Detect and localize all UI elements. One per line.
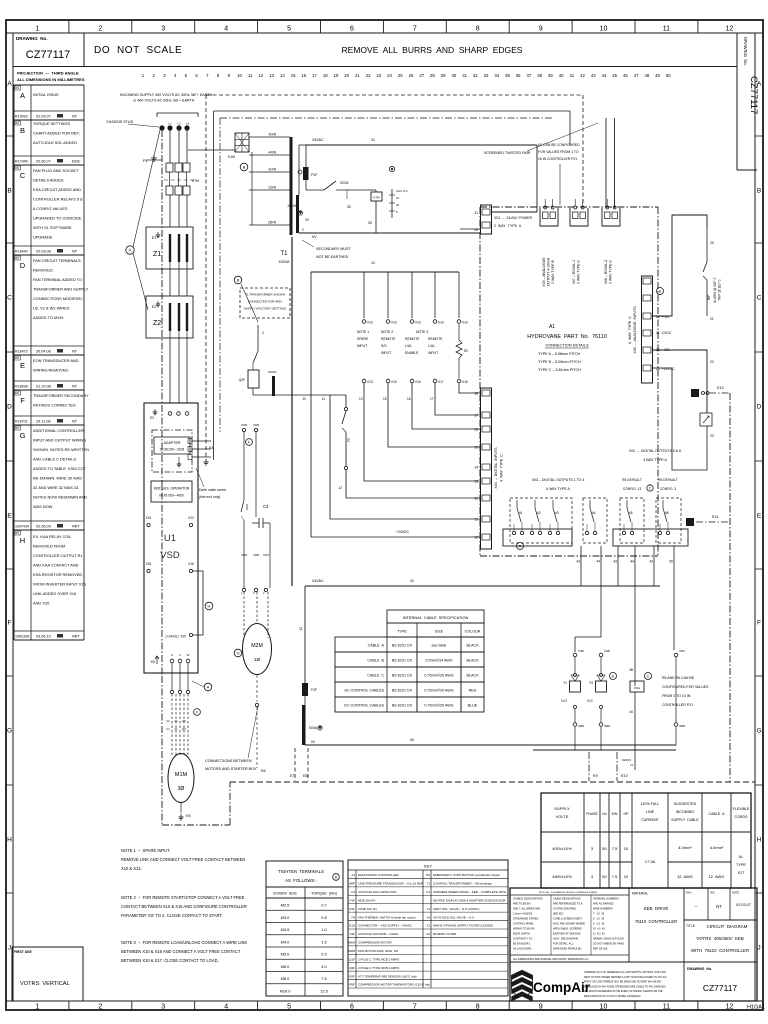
svg-text:EARTHED AT ONE END: EARTHED AT ONE END <box>553 932 581 935</box>
svg-text:60204. EARTH: 60204. EARTH <box>513 932 530 935</box>
svg-text:H1GA1: H1GA1 <box>747 1005 765 1011</box>
svg-text:D: D <box>612 674 615 678</box>
svg-text:NOTE 2: NOTE 2 <box>381 330 393 334</box>
svg-text:8: 8 <box>476 25 480 32</box>
svg-text:R1F: R1F <box>349 907 355 911</box>
svg-text:KSA: KSA <box>245 504 249 510</box>
svg-text:U: U <box>171 653 173 657</box>
svg-text:CompAir: CompAir <box>533 980 591 995</box>
svg-text:SYMBOL DESIGNATIONS: SYMBOL DESIGNATIONS <box>513 897 543 900</box>
svg-text:BS 6231 CK: BS 6231 CK <box>392 689 413 693</box>
svg-text:F2F: F2F <box>311 688 317 692</box>
svg-text:29.11.08: 29.11.08 <box>36 420 51 424</box>
svg-text:37: 37 <box>527 73 532 78</box>
svg-text:2 WAY TYPE B: 2 WAY TYPE B <box>551 259 555 283</box>
svg-text:00.F5.060—4000: 00.F5.060—4000 <box>159 494 184 498</box>
svg-text:F1F: F1F <box>350 898 356 902</box>
svg-text:TORQUE SETTINGS: TORQUE SETTINGS <box>33 121 71 126</box>
svg-text:CONFIG. 3: CONFIG. 3 <box>660 487 677 491</box>
svg-text:X10: X10 <box>415 321 421 325</box>
svg-text:M/S: M/S <box>15 533 20 535</box>
svg-text:X04 – DIGITAL INPUTS: X04 – DIGITAL INPUTS <box>494 447 498 489</box>
svg-text:CONNECTIONS BETWEEN: CONNECTIONS BETWEEN <box>205 759 252 763</box>
svg-text:2 WAY TYPE A: 2 WAY TYPE A <box>494 224 522 228</box>
svg-text:Y4: Y4 <box>589 681 593 685</box>
svg-text:COMPRESSOR MOTOR: COMPRESSOR MOTOR <box>358 941 392 945</box>
svg-text:A: A <box>128 248 131 253</box>
svg-text:WIRING TO BS EN: WIRING TO BS EN <box>513 927 535 930</box>
svg-text:U1: U1 <box>164 533 176 544</box>
svg-text:11: 11 <box>322 397 326 401</box>
svg-text:E4: E4 <box>209 446 213 450</box>
svg-text:03.06.10: 03.06.10 <box>36 635 51 639</box>
svg-text:MATERIAL: MATERIAL <box>632 892 648 896</box>
svg-text:21 CVDC: 21 CVDC <box>656 331 672 335</box>
svg-text:E2: E2 <box>152 305 156 309</box>
svg-text:E6: E6 <box>151 660 155 664</box>
svg-text:X16: X16 <box>415 380 421 384</box>
svg-text:REMOTE: REMOTE <box>381 337 396 341</box>
svg-text:A0 CAN BE CONFIGURED: A0 CAN BE CONFIGURED <box>538 143 580 147</box>
svg-text:0V: 0V <box>305 218 310 222</box>
svg-text:16: 16 <box>301 73 306 78</box>
svg-text:3MD: 3MD <box>578 724 585 728</box>
svg-text:E: E <box>757 512 762 519</box>
svg-text:CONNECTIONS MODIFIED.: CONNECTIONS MODIFIED. <box>33 296 83 301</box>
svg-text:L2: L2 <box>177 122 181 126</box>
svg-text:25: 25 <box>398 73 403 78</box>
svg-text:7.5: 7.5 <box>612 846 618 851</box>
svg-text:7 1.0 25: 7 1.0 25 <box>593 912 605 915</box>
svg-text:30.04.08: 30.04.08 <box>36 350 51 354</box>
svg-text:8: 8 <box>476 1004 480 1011</box>
svg-text:COOLING FAN CAPACITOR: COOLING FAN CAPACITOR <box>358 890 397 894</box>
svg-text:REMOVED.: REMOVED. <box>33 268 54 273</box>
svg-text:H: H <box>20 536 25 545</box>
svg-text:12: 12 <box>259 73 264 78</box>
svg-text:VSD: VSD <box>160 550 180 561</box>
svg-text:4.0mm²: 4.0mm² <box>678 845 692 850</box>
svg-text:2.5: 2.5 <box>321 952 326 957</box>
svg-text:17: 17 <box>312 73 317 78</box>
svg-text:TRANSFORMER AND SUPPLY: TRANSFORMER AND SUPPLY <box>33 287 89 292</box>
svg-text:02.06.09: 02.06.09 <box>36 525 51 529</box>
svg-text:L/UL: L/UL <box>428 344 435 348</box>
svg-text:AUTO-IDLE SOL ADDED: AUTO-IDLE SOL ADDED <box>33 140 77 145</box>
svg-text:FAN CIRCUIT TERMINALS: FAN CIRCUIT TERMINALS <box>33 258 81 263</box>
svg-text:CONTROLLER P21: CONTROLLER P21 <box>662 703 693 707</box>
svg-text:M/S: M/S <box>15 393 20 395</box>
svg-text:FUSE 10A (F): FUSE 10A (F) <box>358 907 377 911</box>
svg-text:NT: NT <box>72 115 78 119</box>
svg-text:or 460 VOLTS AC 60Hz 3Ø + EART: or 460 VOLTS AC 60Hz 3Ø + EARTH <box>133 99 195 103</box>
svg-text:ONLY. SEE DIAGRAM: ONLY. SEE DIAGRAM <box>553 937 578 940</box>
svg-text:U2, V2 & W2 WIRES: U2, V2 & W2 WIRES <box>33 306 70 311</box>
svg-text:R2F: R2F <box>349 974 355 978</box>
svg-text:TYPE: TYPE <box>397 630 407 634</box>
svg-text:43: 43 <box>649 560 653 564</box>
svg-text:XW7: XW7 <box>263 553 270 557</box>
svg-text:RIF: RIF <box>707 295 711 300</box>
svg-text:NOS. ARE SHOWN WHERE: NOS. ARE SHOWN WHERE <box>553 922 585 925</box>
svg-text:KEY: KEY <box>424 864 432 869</box>
svg-text:2: 2 <box>98 1004 102 1011</box>
svg-text:F: F <box>20 396 25 405</box>
svg-text:9 WAY TYPE C: 9 WAY TYPE C <box>500 454 504 482</box>
svg-text:20.03.08: 20.03.08 <box>36 250 51 254</box>
svg-text:FOR DETAIL. ALL: FOR DETAIL. ALL <box>553 942 574 945</box>
svg-text:ARE REFERENCED TO A: ARE REFERENCED TO A <box>553 902 583 905</box>
svg-text:E: E <box>7 512 12 519</box>
svg-text:2 POLE C TYPE MCB 2 AMPS: 2 POLE C TYPE MCB 2 AMPS <box>358 957 399 961</box>
svg-text:CHART ADDED FOR REF;: CHART ADDED FOR REF; <box>33 131 80 136</box>
svg-text:X4B: X4B <box>578 649 584 653</box>
svg-text:CONTACT BETWEEN X10 & X15 AND: CONTACT BETWEEN X10 & X15 AND CONFIGURE … <box>121 904 247 909</box>
svg-text:#4: #4 <box>592 511 596 515</box>
svg-text:AUX A.C: AUX A.C <box>396 189 409 193</box>
svg-text:TYPE C – 3.81mm PITCH: TYPE C – 3.81mm PITCH <box>538 368 581 372</box>
svg-text:INPUT AND OUTPUT WIRING: INPUT AND OUTPUT WIRING <box>33 438 86 443</box>
svg-text:39: 39 <box>548 73 553 78</box>
svg-text:CABLE DESIGNATIONS: CABLE DESIGNATIONS <box>553 897 581 900</box>
svg-text:15: 15 <box>383 397 387 401</box>
svg-text:DO NOT SCALE: DO NOT SCALE <box>94 45 182 56</box>
svg-text:18: 18 <box>323 73 328 78</box>
svg-text:7: 7 <box>413 25 417 32</box>
svg-text:36: 36 <box>516 73 521 78</box>
svg-text:33: 33 <box>484 73 489 78</box>
svg-text:DRAWING No.: DRAWING No. <box>16 36 48 41</box>
svg-text:KSA RESISTOR REMOVED: KSA RESISTOR REMOVED <box>33 572 82 577</box>
svg-text:ARE AS MARKED.: ARE AS MARKED. <box>593 902 614 905</box>
svg-text:M5.0: M5.0 <box>281 952 290 957</box>
svg-text:CONTROLLER RELAYS 5 &: CONTROLLER RELAYS 5 & <box>33 197 83 202</box>
svg-text:NT: NT <box>72 385 78 389</box>
svg-text:4B: 4B <box>629 668 633 672</box>
svg-text:ALL RIGHTS RESERVED IN THE EVE: ALL RIGHTS RESERVED IN THE EVENT OF PATE… <box>584 990 663 993</box>
svg-text:BETWEEN X10 & X16 AND CONNECT: BETWEEN X10 & X16 AND CONNECT A VOLT FRE… <box>121 949 241 954</box>
svg-text:E3: E3 <box>150 416 154 420</box>
svg-text:C: C <box>7 294 12 301</box>
svg-text:K1M: K1M <box>228 155 235 159</box>
svg-text:CONTINUITY TO: CONTINUITY TO <box>513 937 532 940</box>
svg-text:MODBUS OPERATOR: MODBUS OPERATOR <box>154 487 190 491</box>
svg-text:TYPE: TYPE <box>736 863 746 867</box>
svg-text:CIRCUIT DIAGRAM: CIRCUIT DIAGRAM <box>707 924 748 929</box>
svg-text:Y1: Y1 <box>426 907 430 911</box>
svg-text:P1F: P1F <box>311 173 318 177</box>
svg-text:FROM 1 TO 13 IN: FROM 1 TO 13 IN <box>662 694 691 698</box>
svg-text:SECONDARY MUST: SECONDARY MUST <box>316 247 351 251</box>
svg-text:ADAPTER: ADAPTER <box>164 441 181 445</box>
svg-text:11: 11 <box>663 1004 670 1011</box>
svg-text:K7M: K7M <box>192 179 199 183</box>
svg-text:L/UL: L/UL <box>405 344 412 348</box>
svg-text:X13: X13 <box>367 380 373 384</box>
svg-text:M1M: M1M <box>175 772 188 778</box>
svg-text:40: 40 <box>410 738 414 742</box>
svg-text:13: 13 <box>359 397 363 401</box>
svg-text:31: 31 <box>462 73 467 78</box>
svg-text:Z1: Z1 <box>426 924 430 928</box>
svg-text:FROM INVERTER INPUT X16.: FROM INVERTER INPUT X16. <box>33 582 87 587</box>
svg-text:M3.0: M3.0 <box>281 915 290 920</box>
svg-text:VOTRS VERTICAL: VOTRS VERTICAL <box>20 981 70 987</box>
svg-text:34: 34 <box>494 73 499 78</box>
svg-text:CORDS: CORDS <box>735 815 749 819</box>
svg-text:R5 DEFAULT: R5 DEFAULT <box>622 478 642 482</box>
svg-text:SCREW SIZE: SCREW SIZE <box>273 892 298 896</box>
svg-text:#6: #6 <box>665 511 669 515</box>
svg-text:CABLE B: CABLE B <box>367 659 384 663</box>
svg-text:E9: E9 <box>593 774 598 778</box>
svg-text:X05 – ANALOGUE: X05 – ANALOGUE <box>542 257 546 287</box>
svg-text:X10 & X13.: X10 & X13. <box>121 866 142 871</box>
svg-text:SYSTEM DIAGRAM.: SYSTEM DIAGRAM. <box>553 907 577 910</box>
svg-text:UPGRADE.: UPGRADE. <box>33 235 53 240</box>
svg-text:2.5mm²/14 AWG: 2.5mm²/14 AWG <box>425 659 452 663</box>
svg-text:K7M: K7M <box>373 196 380 200</box>
svg-text:(+24Vdc) X20: (+24Vdc) X20 <box>166 635 187 639</box>
svg-text:10: 10 <box>474 536 478 540</box>
svg-text:WIRING REMOVED.: WIRING REMOVED. <box>33 368 69 373</box>
svg-text:M/S: M/S <box>15 168 20 170</box>
svg-text:W2: W2 <box>182 719 186 723</box>
svg-text:R18701: R18701 <box>15 420 28 424</box>
svg-text:11: 11 <box>630 763 633 767</box>
svg-text:Z1: Z1 <box>153 251 161 258</box>
svg-text:RE-DRAWN. WIRE 30 WAS: RE-DRAWN. WIRE 30 WAS <box>33 476 82 481</box>
svg-text:42: 42 <box>580 73 585 78</box>
svg-text:0.75mm²/20 AWG: 0.75mm²/20 AWG <box>424 674 453 678</box>
svg-text:MAINS: MAINS <box>622 758 631 762</box>
svg-text:24VAC: 24VAC <box>312 138 324 142</box>
svg-text:ALL DIMENSIONS IN MILLIMETRES: ALL DIMENSIONS IN MILLIMETRES <box>17 77 85 82</box>
svg-text:24VAC: 24VAC <box>312 579 324 583</box>
svg-text:38: 38 <box>537 73 542 78</box>
svg-text:DRAWING No.: DRAWING No. <box>743 37 748 66</box>
svg-text:R: R <box>335 875 338 879</box>
svg-text:12.5: 12.5 <box>320 988 328 993</box>
svg-text:BS 6231 CK: BS 6231 CK <box>392 644 413 648</box>
svg-text:AS LAID DOWN.: AS LAID DOWN. <box>513 947 532 950</box>
svg-text:XW5: XW5 <box>241 423 248 427</box>
svg-text:R6 DEFAULT: R6 DEFAULT <box>658 478 678 482</box>
svg-text:10: 10 <box>371 261 375 265</box>
svg-text:A1: A1 <box>549 324 555 330</box>
svg-text:NOTE 1 – SPARE INPUT.: NOTE 1 – SPARE INPUT. <box>121 848 170 853</box>
svg-text:F5: F5 <box>351 915 355 919</box>
svg-text:Z2: Z2 <box>426 932 430 936</box>
svg-text:N.O: N.O <box>561 699 567 703</box>
svg-text:12 AWG: 12 AWG <box>709 874 725 879</box>
svg-text:CHASSIS STUD: CHASSIS STUD <box>106 120 134 124</box>
svg-text:T1: T1 <box>280 251 288 257</box>
svg-text:10: 10 <box>600 25 608 32</box>
svg-text:M/S: M/S <box>15 428 20 430</box>
svg-text:LINK ADDED OVER X16: LINK ADDED OVER X16 <box>33 591 76 596</box>
svg-text:1.5: 1.5 <box>321 939 326 944</box>
svg-text:43: 43 <box>613 560 617 564</box>
svg-text:DC CONTROL CABLES: DC CONTROL CABLES <box>344 704 384 708</box>
svg-text:C3: C3 <box>351 890 355 894</box>
svg-text:PHASE: PHASE <box>586 812 598 816</box>
svg-text:7.5: 7.5 <box>612 874 618 879</box>
svg-text:1062308: 1062308 <box>15 635 29 639</box>
svg-text:X10: X10 <box>391 321 397 325</box>
svg-text:L3: L3 <box>186 122 190 126</box>
svg-text:F: F <box>8 619 12 626</box>
svg-text:A: A <box>7 80 12 87</box>
svg-text:44: 44 <box>602 73 607 78</box>
svg-text:AND KAA CONTACT AND: AND KAA CONTACT AND <box>33 563 79 568</box>
svg-text:10: 10 <box>624 874 629 879</box>
svg-text:40: 40 <box>396 203 400 207</box>
svg-text:BLACK: BLACK <box>466 644 479 648</box>
svg-text:KEYPAD DISPLAY-2008 & ADAPTER: KEYPAD DISPLAY-2008 & ADAPTER 00.58.025-… <box>433 898 505 902</box>
svg-text:WITH 76110 CONTROLLER: WITH 76110 CONTROLLER <box>691 948 749 953</box>
svg-text:0.7: 0.7 <box>321 903 326 908</box>
svg-text:BLACK: BLACK <box>466 659 479 663</box>
svg-text:NT: NT <box>72 350 78 354</box>
svg-text:AND CABLE C DETAILS: AND CABLE C DETAILS <box>33 457 76 462</box>
svg-text:XW9: XW9 <box>253 423 260 427</box>
svg-text:SJT: SJT <box>738 871 745 875</box>
svg-text:R18638: R18638 <box>15 385 28 389</box>
svg-text:Y1: Y1 <box>563 681 567 685</box>
svg-text:1Ø: 1Ø <box>254 657 261 662</box>
svg-text:INPUT: INPUT <box>357 344 367 348</box>
svg-text:X24: X24 <box>146 516 152 520</box>
svg-text:E1: E1 <box>152 236 156 240</box>
svg-text:CONNECTOR – VSD SUPPLY – 24VAC: CONNECTOR – VSD SUPPLY – 24VAC <box>358 924 413 928</box>
svg-text:M6.0: M6.0 <box>281 964 290 969</box>
svg-text:KSA: KSA <box>634 686 640 690</box>
svg-text:G: G <box>20 431 26 440</box>
svg-text:ALL DIMENSIONS ARE NOMINAL AND: ALL DIMENSIONS ARE NOMINAL AND FINISH: D… <box>513 958 588 961</box>
svg-text:X10: X10 <box>367 321 373 325</box>
svg-text:K: K <box>659 289 662 293</box>
svg-text:U1: U1 <box>426 890 430 894</box>
svg-text:REMOVED FROM: REMOVED FROM <box>33 544 65 549</box>
svg-text:50: 50 <box>602 846 607 851</box>
svg-text:ADDITIONAL CONTROLLER: ADDITIONAL CONTROLLER <box>33 428 84 433</box>
svg-text:5: 5 <box>287 25 291 32</box>
svg-text:21: 21 <box>355 73 360 78</box>
svg-text:REMOTE: REMOTE <box>405 337 420 341</box>
svg-text:PARAMETER 'SS' TO 2. CLOSE CON: PARAMETER 'SS' TO 2. CLOSE CONTACT TO ST… <box>121 913 223 918</box>
svg-text:20: 20 <box>710 241 714 245</box>
svg-text:CABLE A: CABLE A <box>368 644 385 648</box>
svg-text:EMERGENCY STOP BUTTON (pushbut: EMERGENCY STOP BUTTON (pushbutton head) <box>433 873 499 877</box>
svg-text:EX. KAA RELAY COIL: EX. KAA RELAY COIL <box>33 534 72 539</box>
svg-text:X5G: X5G <box>679 649 686 653</box>
svg-text:XW8: XW8 <box>253 553 260 557</box>
svg-text:#2: #2 <box>537 511 541 515</box>
svg-text:1: 1 <box>35 25 39 32</box>
svg-text:SCREENED TWISTED PAIR: SCREENED TWISTED PAIR <box>484 151 531 155</box>
svg-text:C: C <box>20 171 26 180</box>
svg-text:G: G <box>756 727 761 734</box>
svg-text:31: 31 <box>371 138 375 142</box>
svg-text:ELECTRONIC CONTROLLER: ELECTRONIC CONTROLLER <box>358 873 400 877</box>
svg-text:2: 2 <box>262 331 264 335</box>
svg-text:2: 2 <box>98 25 102 32</box>
svg-text:INCOMING SUPPLY 400 VOLTS AC 5: INCOMING SUPPLY 400 VOLTS AC 50Hz 3Ø + E… <box>120 93 213 97</box>
svg-text:41: 41 <box>569 73 574 78</box>
svg-text:13: 13 <box>269 73 274 78</box>
svg-text:F2F: F2F <box>350 932 356 936</box>
svg-text:4: 4 <box>224 25 228 32</box>
svg-text:16 IN CONTROLLER P21: 16 IN CONTROLLER P21 <box>538 157 577 161</box>
svg-text:ADDED TO M1M.: ADDED TO M1M. <box>33 315 64 320</box>
svg-text:27: 27 <box>419 73 424 78</box>
svg-text:R17945: R17945 <box>15 160 28 164</box>
svg-text:35: 35 <box>505 73 510 78</box>
svg-text:0V: 0V <box>312 235 317 239</box>
svg-text:KEB DRIVE: KEB DRIVE <box>644 906 669 911</box>
svg-text:4.0: 4.0 <box>321 964 327 969</box>
svg-text:230N: 230N <box>268 186 276 190</box>
svg-text:M1M: M1M <box>348 941 355 945</box>
svg-text:COOLING FAN MCB – 24VAC: COOLING FAN MCB – 24VAC <box>358 932 399 936</box>
svg-text:X08 – RS484–2: X08 – RS484–2 <box>604 260 608 285</box>
svg-text:ADDED TO TABLE. KSM CCT: ADDED TO TABLE. KSM CCT <box>33 466 86 471</box>
svg-text:W1: W1 <box>182 727 186 731</box>
svg-text:AC CONTROL CABLES: AC CONTROL CABLES <box>344 689 384 693</box>
svg-text:16: 16 <box>407 397 411 401</box>
svg-text:45: 45 <box>612 73 617 78</box>
svg-text:40: 40 <box>559 73 564 78</box>
svg-text:21: 21 <box>710 317 714 321</box>
svg-text:R18440: R18440 <box>15 250 28 254</box>
svg-text:APPLICABLE. SCREENS: APPLICABLE. SCREENS <box>553 927 582 930</box>
svg-text:43: 43 <box>591 73 596 78</box>
svg-text:W: W <box>187 653 190 657</box>
svg-text:20.06.07: 20.06.07 <box>36 160 51 164</box>
svg-text:Q1F: Q1F <box>349 957 355 961</box>
svg-text:110% FULL: 110% FULL <box>641 802 660 806</box>
svg-text:see table: see table <box>432 644 447 648</box>
svg-text:2: 2 <box>302 228 304 232</box>
svg-text:SUGGESTED: SUGGESTED <box>674 802 697 806</box>
svg-text:FAN MOTOR 230V, 40VA, 1Ø: FAN MOTOR 230V, 40VA, 1Ø <box>358 949 398 953</box>
svg-text:14: 14 <box>280 73 285 78</box>
svg-text:1.0: 1.0 <box>321 927 327 932</box>
svg-text:LINE PRESSURE TRANSDUCER – 0 t: LINE PRESSURE TRANSDUCER – 0 to 16 BAR <box>358 882 424 886</box>
svg-text:REMOVE LINK AND CONNECT VOLT F: REMOVE LINK AND CONNECT VOLT FREE CONTAC… <box>121 857 245 862</box>
svg-text:10: 10 <box>600 1004 608 1011</box>
svg-text:10: 10 <box>302 397 306 401</box>
svg-text:A: A <box>20 91 25 100</box>
svg-text:31: 31 <box>474 211 478 215</box>
svg-text:24VAC: 24VAC <box>268 370 277 374</box>
svg-text:BS EN 60204-1: BS EN 60204-1 <box>513 942 531 945</box>
svg-text:FAN PLUG AND SOCKET: FAN PLUG AND SOCKET <box>33 168 79 173</box>
svg-text:48: 48 <box>644 73 649 78</box>
svg-text:0.75mm²/20 AWG: 0.75mm²/20 AWG <box>424 689 453 693</box>
svg-text:M2M: M2M <box>348 949 355 953</box>
svg-text:DO NOT AMEND BY HAND: DO NOT AMEND BY HAND <box>593 942 624 945</box>
svg-text:VOTRS 400/460V KEB: VOTRS 400/460V KEB <box>696 936 744 941</box>
svg-text:11: 11 <box>474 518 478 522</box>
svg-text:NOTES NOW REDRAWN AND: NOTES NOW REDRAWN AND <box>33 495 87 500</box>
svg-text:VENT SOL. VALVE – N.O (24VAC): VENT SOL. VALVE – N.O (24VAC) <box>433 907 479 911</box>
svg-text:ENABLE: ENABLE <box>405 351 419 355</box>
svg-text:UPGRADED TO COINCIDE: UPGRADED TO COINCIDE <box>33 216 82 221</box>
svg-text:E5: E5 <box>186 814 191 818</box>
svg-text:M/S: M/S <box>15 88 20 90</box>
